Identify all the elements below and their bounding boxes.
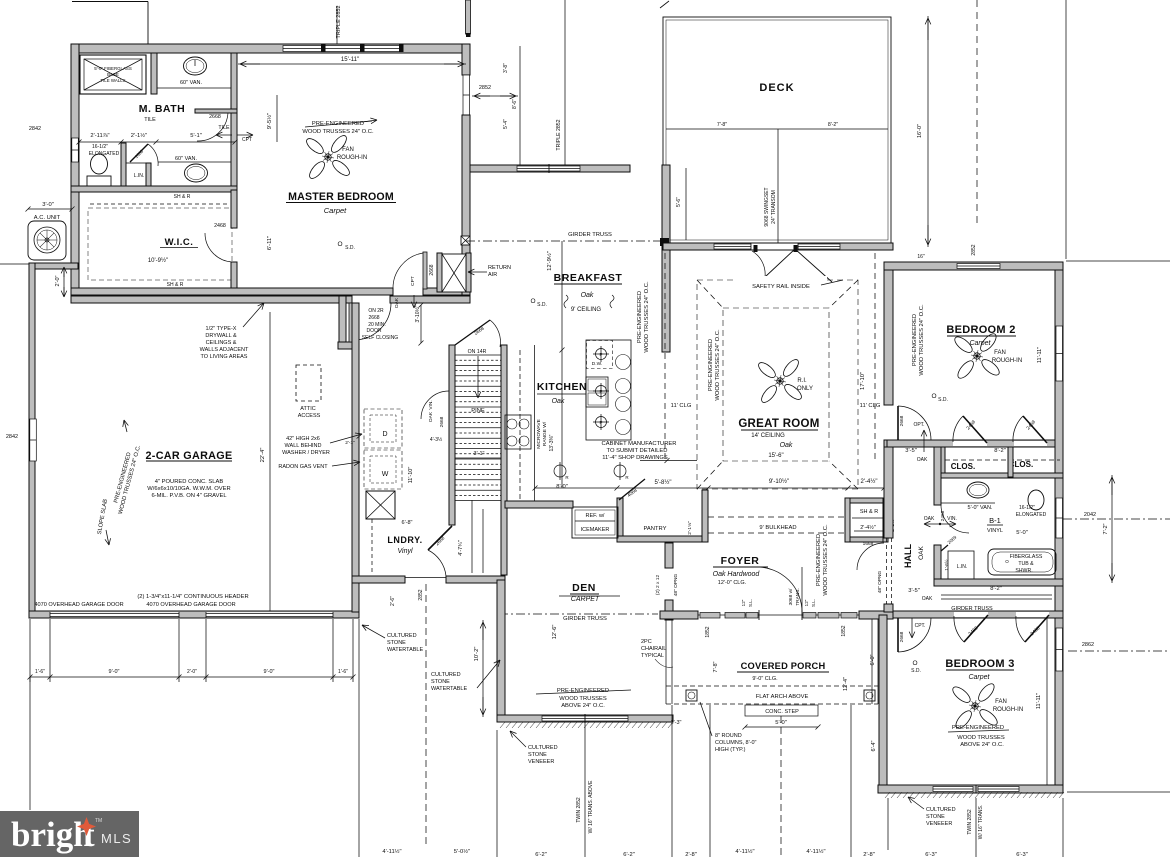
svg-text:W/ 16" TRANS. ABOVE: W/ 16" TRANS. ABOVE [588, 780, 594, 833]
svg-text:ICEMAKER: ICEMAKER [581, 527, 610, 533]
svg-text:2'-6": 2'-6" [390, 596, 396, 606]
svg-text:WOOD TRUSSES 24" O.C.: WOOD TRUSSES 24" O.C. [919, 304, 925, 376]
svg-text:Oak: Oak [552, 398, 565, 405]
svg-text:2'-1": 2'-1" [345, 440, 355, 446]
svg-text:STONE: STONE [431, 679, 450, 685]
svg-text:6'-0": 6'-0" [870, 654, 876, 665]
svg-text:CPT: CPT [410, 276, 416, 286]
svg-text:DECK: DECK [759, 82, 794, 94]
svg-text:1'-6": 1'-6" [338, 669, 348, 675]
svg-text:CULTURED: CULTURED [528, 745, 558, 751]
svg-text:2668: 2668 [439, 416, 445, 427]
svg-text:CPT: CPT [242, 137, 252, 143]
svg-text:9' BULKHEAD: 9' BULKHEAD [759, 525, 796, 531]
svg-text:2PC: 2PC [641, 639, 652, 645]
svg-text:BEDROOM 2: BEDROOM 2 [946, 324, 1015, 336]
svg-text:CULTURED: CULTURED [387, 633, 417, 639]
svg-text:5'-0" FIBERGLASS: 5'-0" FIBERGLASS [94, 66, 132, 71]
svg-text:6'-3": 6'-3" [925, 852, 937, 857]
svg-text:2-CAR GARAGE: 2-CAR GARAGE [146, 450, 233, 462]
svg-text:1852: 1852 [705, 626, 711, 637]
svg-text:CEILINGS &: CEILINGS & [206, 340, 237, 346]
svg-text:O: O [912, 660, 917, 667]
svg-text:ONLY: ONLY [797, 386, 813, 392]
svg-text:Vinyl: Vinyl [397, 548, 412, 555]
svg-text:ACCESS: ACCESS [298, 413, 321, 419]
svg-text:2862: 2862 [1082, 642, 1094, 648]
svg-text:17'-10": 17'-10" [860, 372, 866, 390]
svg-text:3'-10½": 3'-10½" [414, 305, 421, 322]
svg-text:6'-3": 6'-3" [1016, 852, 1028, 857]
svg-text:8" ROUND: 8" ROUND [715, 733, 742, 739]
svg-text:AIR: AIR [488, 272, 497, 278]
svg-text:TO SUBMIT DETAILED: TO SUBMIT DETAILED [607, 448, 668, 454]
svg-text:TM: TM [95, 818, 102, 824]
svg-text:48" OPNG: 48" OPNG [877, 570, 883, 593]
svg-text:2468: 2468 [214, 223, 226, 229]
svg-text:2842: 2842 [6, 434, 18, 440]
svg-text:8'-2": 8'-2" [994, 448, 1006, 454]
svg-text:W/6x6x10/10GA. W.W.M. OVER: W/6x6x10/10GA. W.W.M. OVER [147, 486, 230, 492]
svg-text:48" OPNG: 48" OPNG [673, 573, 679, 596]
svg-text:ROUGH-IN: ROUGH-IN [993, 707, 1023, 713]
svg-text:CHAIRAIL: CHAIRAIL [641, 646, 666, 652]
svg-text:6'-11": 6'-11" [267, 236, 273, 250]
svg-text:WOOD TRUSSES 24" O.C.: WOOD TRUSSES 24" O.C. [644, 281, 650, 353]
svg-text:9' CEILING: 9' CEILING [571, 307, 601, 313]
svg-text:L.IN.: L.IN. [957, 564, 968, 570]
svg-text:9'-0" CLG.: 9'-0" CLG. [752, 676, 778, 682]
svg-text:12'-9½": 12'-9½" [546, 251, 553, 271]
svg-text:6'-4": 6'-4" [871, 740, 877, 751]
svg-text:DRYWALL &: DRYWALL & [205, 333, 237, 339]
svg-text:CLOS.: CLOS. [951, 462, 975, 471]
svg-text:2468: 2468 [940, 510, 946, 521]
svg-text:OAK: OAK [918, 545, 925, 559]
svg-text:HALL: HALL [903, 544, 913, 568]
svg-text:STONE: STONE [926, 814, 945, 820]
svg-text:CPT.: CPT. [915, 623, 926, 629]
svg-text:12'-4": 12'-4" [843, 677, 849, 691]
svg-text:4'-3½: 4'-3½ [430, 436, 443, 443]
svg-text:TRANS.: TRANS. [795, 588, 801, 606]
svg-text:2668: 2668 [899, 415, 905, 426]
svg-text:OAK: OAK [917, 457, 928, 463]
svg-text:7'-2": 7'-2" [1103, 523, 1109, 534]
svg-text:2668: 2668 [368, 315, 379, 321]
svg-text:Carpet: Carpet [968, 674, 990, 681]
svg-text:SH & R: SH & R [174, 194, 191, 200]
svg-text:11' CLG: 11' CLG [671, 403, 692, 409]
svg-text:4070 OVERHEAD GARAGE DOOR: 4070 OVERHEAD GARAGE DOOR [146, 602, 235, 608]
svg-text:TWIN 2852: TWIN 2852 [576, 797, 582, 823]
svg-text:DEN: DEN [572, 582, 596, 594]
svg-text:(2) 2 x 12: (2) 2 x 12 [655, 575, 661, 596]
svg-text:6'-2": 6'-2" [623, 852, 635, 857]
svg-text:WALLS ADJACENT: WALLS ADJACENT [200, 347, 249, 353]
svg-text:VIN.: VIN. [428, 400, 434, 409]
svg-text:RADON GAS VENT: RADON GAS VENT [278, 464, 328, 470]
svg-text:Carpet: Carpet [969, 340, 991, 347]
svg-text:VENEEER: VENEEER [926, 821, 952, 827]
svg-text:MLS: MLS [101, 831, 132, 846]
svg-text:42" HIGH 2x6: 42" HIGH 2x6 [286, 436, 320, 442]
svg-text:PRE-ENGINEERED: PRE-ENGINEERED [708, 339, 714, 391]
svg-text:O: O [530, 298, 535, 305]
svg-text:7'-8": 7'-8" [717, 122, 727, 128]
svg-text:brigh: brigh [11, 815, 93, 854]
svg-text:60" VAN.: 60" VAN. [175, 156, 197, 162]
svg-text:10'-2": 10'-2" [474, 647, 480, 662]
svg-text:1'-6½: 1'-6½ [943, 559, 949, 570]
svg-text:16-1/2": 16-1/2" [1019, 505, 1035, 511]
svg-text:24" TRANSOM: 24" TRANSOM [771, 190, 777, 224]
svg-text:11'-4" SHOP DRAWINGS: 11'-4" SHOP DRAWINGS [602, 455, 668, 461]
svg-text:W.I.C.: W.I.C. [165, 237, 194, 248]
svg-text:VINYL: VINYL [987, 528, 1003, 534]
svg-text:COLUMNS, 8'-0": COLUMNS, 8'-0" [715, 740, 757, 746]
svg-text:3068 w/: 3068 w/ [788, 588, 794, 605]
svg-text:CONC. STEP: CONC. STEP [765, 709, 799, 715]
svg-text:CARPET: CARPET [571, 596, 600, 603]
svg-text:1/2" TYPE-X: 1/2" TYPE-X [206, 326, 237, 332]
svg-text:2'-11⅞": 2'-11⅞" [90, 133, 109, 139]
svg-text:RETURN: RETURN [488, 265, 511, 271]
svg-text:15'-6": 15'-6" [768, 453, 783, 459]
svg-text:5'-0" VAN.: 5'-0" VAN. [968, 505, 993, 511]
svg-text:COVERED PORCH: COVERED PORCH [741, 661, 826, 671]
svg-text:2852: 2852 [418, 589, 424, 600]
svg-text:WATERTABLE: WATERTABLE [387, 647, 423, 653]
svg-text:OAK: OAK [394, 297, 400, 308]
svg-text:TWIN 2852: TWIN 2852 [967, 809, 973, 835]
svg-text:D: D [382, 431, 387, 438]
svg-text:L.IN.: L.IN. [134, 173, 145, 179]
svg-text:15'-11": 15'-11" [341, 57, 359, 63]
svg-text:FAN: FAN [995, 699, 1007, 705]
svg-text:SH & R: SH & R [167, 282, 184, 288]
svg-text:11'-11": 11'-11" [1037, 347, 1043, 363]
svg-text:B-1: B-1 [989, 516, 1001, 525]
svg-text:WOOD TRUSSES: WOOD TRUSSES [559, 696, 607, 702]
svg-text:5'-4": 5'-4" [503, 119, 509, 129]
svg-text:8'-6": 8'-6" [512, 99, 518, 109]
svg-text:W: W [382, 471, 389, 478]
svg-text:OPT.: OPT. [913, 422, 924, 428]
svg-text:OAK: OAK [922, 596, 933, 602]
svg-text:2668: 2668 [209, 114, 221, 120]
svg-text:12": 12" [741, 599, 746, 606]
svg-text:FOYER: FOYER [721, 555, 760, 567]
svg-text:HIGH (TYP.): HIGH (TYP.) [715, 747, 746, 753]
svg-text:MICROWAVE: MICROWAVE [536, 419, 542, 449]
svg-text:2842: 2842 [29, 126, 41, 132]
svg-text:5'-0½": 5'-0½" [454, 848, 470, 855]
svg-text:t: t [83, 815, 95, 854]
svg-text:6-MIL. P.V.B. ON 4" GRAVEL: 6-MIL. P.V.B. ON 4" GRAVEL [151, 493, 227, 499]
svg-text:4'-7¾": 4'-7¾" [458, 540, 464, 556]
svg-text:TILE: TILE [144, 117, 156, 123]
svg-text:WOOD TRUSSES 24" O.C.: WOOD TRUSSES 24" O.C. [715, 329, 721, 401]
svg-text:2'-1½": 2'-1½" [131, 132, 147, 139]
svg-text:7'-8": 7'-8" [713, 661, 719, 672]
svg-text:11' CLG: 11' CLG [860, 403, 881, 409]
svg-text:16-1/2": 16-1/2" [92, 144, 108, 150]
svg-text:PINE: PINE [471, 408, 485, 414]
svg-text:2'-0": 2'-0" [55, 275, 61, 286]
svg-text:PRE-ENGINEERED: PRE-ENGINEERED [816, 534, 822, 586]
svg-text:S.D.: S.D. [911, 668, 921, 674]
svg-text:S.D.: S.D. [537, 302, 547, 308]
svg-text:TO LIVING AREAS: TO LIVING AREAS [201, 354, 248, 360]
svg-text:4'-11½": 4'-11½" [735, 848, 754, 855]
svg-text:S.L.: S.L. [748, 599, 753, 607]
svg-text:WASHER / DRYER: WASHER / DRYER [282, 450, 330, 456]
svg-text:S.D.: S.D. [938, 397, 948, 403]
svg-text:5'-6": 5'-6" [676, 197, 682, 207]
svg-text:2042: 2042 [1084, 512, 1096, 518]
svg-text:TILE WALLS: TILE WALLS [100, 78, 125, 83]
svg-text:ROUGH-IN: ROUGH-IN [337, 155, 367, 161]
svg-text:Oak Hardwood: Oak Hardwood [713, 571, 761, 578]
svg-text:O: O [1005, 559, 1009, 564]
svg-text:12'-0" CLG.: 12'-0" CLG. [718, 580, 747, 586]
svg-text:22'-4": 22'-4" [260, 448, 266, 463]
svg-text:MASTER BEDROOM: MASTER BEDROOM [288, 191, 394, 203]
svg-text:WATERTABLE: WATERTABLE [431, 686, 467, 692]
svg-text:5'-1": 5'-1" [190, 133, 202, 139]
svg-text:3'-8": 3'-8" [503, 63, 509, 73]
svg-text:BEDROOM 3: BEDROOM 3 [945, 658, 1014, 670]
svg-text:OAK: OAK [924, 516, 935, 522]
svg-text:1'-6": 1'-6" [35, 669, 45, 675]
svg-text:O: O [337, 241, 342, 248]
svg-text:Oak: Oak [780, 442, 793, 449]
svg-text:R.I.: R.I. [797, 378, 807, 384]
svg-text:OAK: OAK [428, 411, 434, 422]
svg-text:WOOD TRUSSES: WOOD TRUSSES [957, 735, 1005, 741]
svg-text:STONE: STONE [528, 752, 547, 758]
svg-text:4'-11½": 4'-11½" [382, 848, 401, 855]
svg-text:LNDRY.: LNDRY. [387, 535, 422, 545]
svg-text:SH & R: SH & R [860, 509, 878, 515]
svg-text:5'-0": 5'-0" [1016, 530, 1028, 536]
svg-text:2'-4½": 2'-4½" [861, 478, 878, 485]
svg-text:SHWR.: SHWR. [1015, 568, 1032, 574]
svg-text:8'-2": 8'-2" [828, 122, 838, 128]
svg-text:GREAT ROOM: GREAT ROOM [738, 418, 819, 430]
svg-text:9'-0": 9'-0" [109, 669, 120, 675]
svg-text:4" POURED CONC. SLAB: 4" POURED CONC. SLAB [155, 479, 224, 485]
svg-text:4'-11½": 4'-11½" [806, 848, 825, 855]
svg-text:2'-0": 2'-0" [187, 669, 197, 675]
svg-text:5'-8½": 5'-8½" [655, 479, 672, 486]
svg-text:ELONGATED: ELONGATED [1016, 512, 1047, 518]
svg-text:A.C. UNIT: A.C. UNIT [34, 215, 61, 221]
svg-text:M. BATH: M. BATH [139, 103, 185, 115]
svg-text:ON 2R: ON 2R [368, 308, 384, 314]
svg-text:VIN.: VIN. [947, 516, 957, 522]
svg-text:W/ 16" TRANS.: W/ 16" TRANS. [978, 805, 984, 839]
svg-text:12'-6": 12'-6" [552, 625, 558, 640]
svg-text:6'-8": 6'-8" [402, 520, 413, 526]
svg-text:1852: 1852 [841, 625, 847, 636]
svg-text:VENEEER: VENEEER [528, 759, 554, 765]
svg-text:FLAT ARCH ABOVE: FLAT ARCH ABOVE [756, 694, 809, 700]
svg-text:9068 SWINGSET: 9068 SWINGSET [764, 187, 770, 226]
svg-text:2'-1⅛": 2'-1⅛" [687, 521, 693, 535]
svg-text:ABOVE 24" O.C.: ABOVE 24" O.C. [960, 742, 1004, 748]
svg-text:STONE: STONE [387, 640, 406, 646]
svg-text:FAN: FAN [994, 350, 1006, 356]
svg-text:ATTIC: ATTIC [300, 406, 316, 412]
svg-text:TYPICAL: TYPICAL [641, 653, 664, 659]
svg-text:2'-8": 2'-8" [863, 852, 875, 857]
svg-text:TUB &: TUB & [1018, 561, 1034, 567]
svg-text:WOOD TRUSSES 24" O.C.: WOOD TRUSSES 24" O.C. [823, 524, 829, 596]
svg-text:BREAKFAST: BREAKFAST [554, 272, 623, 284]
svg-text:S.D.: S.D. [345, 245, 355, 251]
svg-text:11'-10": 11'-10" [408, 467, 414, 484]
svg-text:CULTURED: CULTURED [926, 807, 956, 813]
svg-text:ABOVE 24" O.C.: ABOVE 24" O.C. [561, 703, 605, 709]
svg-text:SAFETY RAIL INSIDE: SAFETY RAIL INSIDE [752, 284, 810, 290]
svg-text:12": 12" [804, 599, 809, 606]
svg-text:Carpet: Carpet [324, 206, 347, 215]
svg-text:3'-0": 3'-0" [42, 202, 54, 208]
svg-text:ON 14R: ON 14R [468, 349, 487, 355]
svg-text:BASE: BASE [107, 72, 119, 77]
svg-text:WOOD TRUSSES 24" O.C.: WOOD TRUSSES 24" O.C. [302, 129, 374, 135]
svg-text:9'-5½": 9'-5½" [266, 113, 273, 129]
svg-text:RANGE W/: RANGE W/ [542, 421, 548, 446]
svg-text:CULTURED: CULTURED [431, 672, 461, 678]
svg-text:Oak: Oak [581, 292, 594, 299]
svg-text:2852: 2852 [971, 244, 977, 255]
svg-text:10'-9½": 10'-9½" [148, 257, 168, 264]
svg-text:3'-5": 3'-5" [908, 588, 920, 594]
svg-text:S.L.: S.L. [811, 599, 816, 607]
svg-text:16": 16" [917, 254, 925, 260]
svg-text:2'-8": 2'-8" [685, 852, 697, 857]
svg-text:13'-3⅜": 13'-3⅜" [549, 434, 555, 451]
svg-text:3'-5": 3'-5" [905, 448, 917, 454]
svg-text:(2) 1-3/4"x11-1/4" CONTINUOUS: (2) 1-3/4"x11-1/4" CONTINUOUS HEADER [137, 594, 248, 600]
svg-text:14' CEILING: 14' CEILING [751, 433, 785, 439]
svg-text:8'-2": 8'-2" [990, 586, 1002, 592]
svg-text:60" VAN.: 60" VAN. [180, 80, 202, 86]
svg-text:2668: 2668 [899, 631, 905, 642]
svg-text:2668: 2668 [429, 264, 435, 275]
svg-text:SELF CLOSING: SELF CLOSING [362, 335, 399, 341]
svg-text:9'-10½": 9'-10½" [769, 478, 789, 485]
svg-text:TILE: TILE [218, 125, 230, 131]
svg-text:6'-2": 6'-2" [535, 852, 547, 857]
svg-text:16'-0": 16'-0" [917, 124, 923, 138]
svg-text:DOOR: DOOR [367, 328, 382, 334]
svg-text:O: O [931, 393, 936, 400]
svg-text:PANTRY: PANTRY [644, 526, 667, 532]
svg-text:9'-0": 9'-0" [264, 669, 275, 675]
svg-text:2'-4½": 2'-4½" [860, 524, 876, 531]
svg-text:FIBERGLASS: FIBERGLASS [1010, 554, 1043, 560]
svg-text:PRE-ENGINEERED: PRE-ENGINEERED [637, 291, 643, 343]
svg-text:ROUGH-IN: ROUGH-IN [992, 358, 1022, 364]
svg-text:WALL BEHIND: WALL BEHIND [285, 443, 322, 449]
svg-text:11'-11": 11'-11" [1036, 693, 1042, 709]
svg-text:GIRDER TRUSS: GIRDER TRUSS [563, 616, 607, 622]
svg-text:FAN: FAN [342, 147, 354, 153]
svg-text:TRIPLE 2852: TRIPLE 2852 [556, 119, 562, 150]
svg-text:PRE-ENGINEERED: PRE-ENGINEERED [912, 314, 918, 366]
svg-text:3'-1": 3'-1" [474, 451, 485, 457]
svg-text:GIRDER TRUSS: GIRDER TRUSS [568, 232, 612, 238]
svg-text:2852: 2852 [479, 85, 491, 91]
svg-text:4070 OVERHEAD GARAGE DOOR: 4070 OVERHEAD GARAGE DOOR [34, 602, 123, 608]
svg-text:REF. w/: REF. w/ [586, 513, 605, 519]
